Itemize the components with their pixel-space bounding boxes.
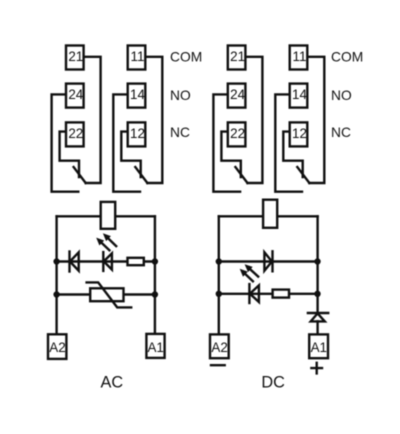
terminal A1 AC xyxy=(146,334,164,358)
terminal box 24 xyxy=(66,84,84,108)
svg-text:COM: COM xyxy=(331,49,363,64)
junction dot DC row2 right xyxy=(314,258,320,264)
wire AC bottom row xyxy=(57,293,155,295)
coil DC xyxy=(263,200,277,228)
LED arrow 1 AC xyxy=(103,233,116,246)
junction dot AC row3 right xyxy=(152,291,158,297)
svg-text:24: 24 xyxy=(68,87,83,102)
wire AC middle row xyxy=(57,260,155,262)
terminal A1 DC xyxy=(309,334,328,358)
svg-text:NC: NC xyxy=(331,125,351,140)
svg-text:11: 11 xyxy=(131,49,145,64)
terminal box 14 xyxy=(290,84,308,108)
svg-text:14: 14 xyxy=(130,87,145,102)
svg-text:22: 22 xyxy=(68,126,83,141)
wire NC 22 lead xyxy=(221,132,240,177)
svg-text:A2: A2 xyxy=(211,340,227,355)
plus sign xyxy=(311,363,322,374)
wire COM 21 to common vertical xyxy=(245,57,262,183)
terminal A2 AC xyxy=(48,334,66,359)
junction dot AC row2 left xyxy=(53,258,59,264)
junction dot DC row2 left xyxy=(216,258,222,264)
svg-text:22: 22 xyxy=(230,126,245,141)
terminal box 21 xyxy=(228,46,246,70)
svg-text:A1: A1 xyxy=(148,340,164,355)
LED arrow 2 DC xyxy=(240,269,253,282)
svg-text:A1: A1 xyxy=(311,340,327,355)
svg-text:14: 14 xyxy=(292,87,307,102)
terminal box 22 xyxy=(66,122,84,146)
svg-text:NC: NC xyxy=(170,125,190,140)
LED arrow 1 DC xyxy=(245,264,259,276)
terminal box 12 xyxy=(290,122,308,146)
wire COM 21 to common vertical xyxy=(84,57,101,183)
terminal box 24 xyxy=(228,84,246,108)
svg-text:NO: NO xyxy=(331,88,352,103)
diode D3 DC xyxy=(264,251,272,271)
svg-text:21: 21 xyxy=(230,49,245,64)
terminal box 11 xyxy=(290,46,308,70)
svg-text:12: 12 xyxy=(130,126,145,141)
switch blade pole 2 DC xyxy=(235,167,247,183)
varistor RV1 xyxy=(87,282,132,307)
wire NC 12 lead xyxy=(283,132,302,177)
svg-text:DC: DC xyxy=(261,373,285,391)
switch blade pole 1 AC xyxy=(135,167,147,183)
wire AC top horizontal xyxy=(57,215,155,217)
wire NO 14 lead xyxy=(275,94,302,191)
wire DC middle row xyxy=(219,260,318,262)
switch blade pole 1 DC xyxy=(297,167,309,183)
diode D5 DC polarity xyxy=(308,313,328,321)
junction dot AC row3 left xyxy=(53,291,59,297)
LED arrow 2 AC xyxy=(96,238,109,251)
wire COM 11 to common vertical xyxy=(145,57,162,183)
wire AC right vertical xyxy=(154,216,156,334)
wire DC top horizontal xyxy=(219,215,318,217)
svg-text:24: 24 xyxy=(230,87,245,102)
terminal box 12 xyxy=(128,122,146,146)
LED diode DC xyxy=(249,284,259,303)
terminal box 22 xyxy=(228,122,246,146)
terminal box 21 xyxy=(66,46,84,70)
wire DC right vertical upper xyxy=(316,216,318,312)
wire DC bottom row xyxy=(219,293,318,295)
svg-text:12: 12 xyxy=(292,126,307,141)
resistor R2 DC xyxy=(273,290,289,298)
junction dot DC row3 right xyxy=(314,291,320,297)
svg-text:NO: NO xyxy=(170,88,191,103)
coil AC xyxy=(101,202,116,229)
svg-text:A2: A2 xyxy=(49,340,65,355)
wire AC left vertical xyxy=(55,216,57,334)
wire NC 12 lead xyxy=(121,132,140,177)
terminal A2 DC xyxy=(210,334,229,358)
minus sign xyxy=(211,364,225,366)
wire NO 14 lead xyxy=(113,94,140,191)
junction dot AC row2 right xyxy=(152,258,158,264)
wire COM 11 to common vertical xyxy=(307,57,324,183)
svg-text:COM: COM xyxy=(170,49,202,64)
junction dot DC row3 left xyxy=(216,291,222,297)
svg-text:11: 11 xyxy=(293,49,307,64)
switch blade pole 2 AC xyxy=(74,167,86,183)
wire NO 24 lead xyxy=(213,94,240,191)
diode D1 AC xyxy=(70,252,79,272)
wire NO 24 lead xyxy=(52,94,79,191)
wire DC left vertical xyxy=(218,216,220,334)
terminal box 14 xyxy=(128,84,146,108)
LED diode AC xyxy=(103,252,112,271)
svg-text:AC: AC xyxy=(100,373,123,391)
wire DC right vertical lower xyxy=(316,321,318,334)
resistor R1 AC xyxy=(128,258,144,265)
wire NC 22 lead xyxy=(60,132,79,177)
svg-text:21: 21 xyxy=(68,49,83,64)
terminal box 11 xyxy=(128,46,146,70)
